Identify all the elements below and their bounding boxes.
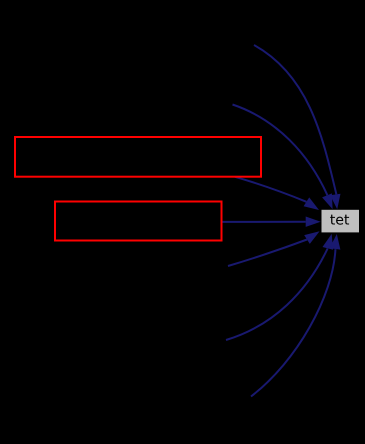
edge 4 arrowhead [306,217,321,227]
edge 2 wire (second top curve into tet top) [233,105,328,196]
node box 1 (red outline, label clipped) [15,137,261,177]
edge 3 wire (from red box 1 to tet top-left corner) [235,177,306,202]
node box 2 (red outline, label clipped) [55,202,222,241]
edge 5 arrowhead [304,231,319,244]
edge 1 arrowhead [330,194,340,210]
edge 7 arrowhead [330,234,341,250]
edge 1 wire (outer top curve into tet top) [254,45,336,194]
node tet label [330,215,349,225]
node tet (grey filled box) [322,210,360,233]
edge 2 arrowhead [322,193,333,209]
edge 3 arrowhead [304,197,319,210]
edge 5 wire (gentle rising curve into tet bottom-left corner) [228,240,307,267]
edge 4 wire (from red box 2 to tet, horizontal) [223,221,306,223]
edge 7 wire (outer bottom curve into tet bottom) [251,249,335,396]
edge 6 arrowhead [323,234,334,250]
edge 6 wire (lower middle curve into tet bottom) [226,249,328,341]
